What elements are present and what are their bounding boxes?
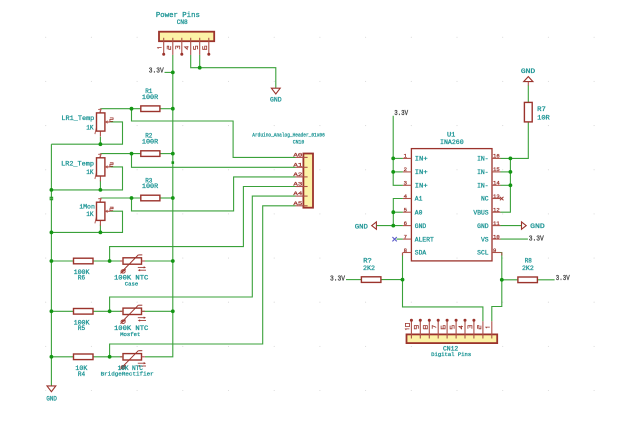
svg-text:iMon: iMon: [79, 204, 95, 211]
svg-text:2K2: 2K2: [522, 265, 534, 272]
svg-text:R5: R5: [78, 325, 85, 332]
svg-text:A1: A1: [415, 196, 423, 203]
svg-text:1K: 1K: [86, 211, 93, 218]
svg-text:GND: GND: [477, 223, 489, 230]
svg-text:1K: 1K: [86, 169, 93, 176]
svg-text:6: 6: [404, 220, 407, 227]
svg-text:9: 9: [493, 247, 496, 254]
svg-text:Case: Case: [125, 281, 138, 288]
svg-text:U1: U1: [447, 132, 456, 139]
svg-text:IN-: IN-: [477, 169, 489, 176]
svg-text:R8: R8: [525, 257, 532, 264]
svg-text:SDA: SDA: [415, 250, 427, 257]
svg-text:10R: 10R: [537, 114, 550, 121]
svg-text:12: 12: [493, 207, 500, 214]
svg-text:IN-: IN-: [477, 156, 489, 163]
svg-text:CN10: CN10: [293, 139, 305, 145]
svg-text:7: 7: [404, 233, 407, 240]
svg-text:GND: GND: [355, 223, 368, 230]
svg-text:GND: GND: [415, 223, 427, 230]
svg-text:3.3V: 3.3V: [556, 275, 571, 283]
svg-text:3.3V: 3.3V: [394, 110, 409, 118]
svg-text:2K2: 2K2: [363, 265, 375, 272]
svg-text:8: 8: [404, 247, 407, 254]
svg-text:Arduino_Analog_Header_01x06: Arduino_Analog_Header_01x06: [252, 133, 324, 139]
svg-text:R?: R?: [363, 258, 372, 265]
svg-text:GND: GND: [521, 68, 535, 75]
svg-text:3.3V: 3.3V: [149, 68, 165, 76]
svg-text:NC: NC: [481, 196, 489, 203]
svg-text:GND: GND: [530, 223, 545, 230]
svg-text:1K: 1K: [86, 125, 93, 132]
svg-text:A3: A3: [293, 181, 302, 188]
svg-text:A5: A5: [293, 200, 302, 207]
svg-text:VS: VS: [481, 236, 489, 243]
svg-text:100R: 100R: [142, 139, 158, 146]
svg-text:IN+: IN+: [415, 156, 428, 163]
svg-text:3.3V: 3.3V: [330, 276, 346, 284]
svg-text:A1: A1: [293, 161, 303, 168]
svg-text:10: 10: [493, 233, 500, 240]
svg-text:11: 11: [493, 220, 500, 227]
svg-text:IN-: IN-: [477, 183, 489, 190]
svg-text:ALERT: ALERT: [415, 236, 434, 243]
svg-text:R4: R4: [78, 371, 85, 378]
svg-text:100R: 100R: [142, 94, 158, 101]
svg-text:GND: GND: [270, 96, 282, 103]
svg-text:3.3V: 3.3V: [529, 235, 545, 243]
svg-text:A0: A0: [415, 209, 423, 216]
svg-text:5: 5: [404, 207, 407, 214]
svg-text:Mosfet: Mosfet: [120, 331, 140, 338]
svg-text:A4: A4: [293, 190, 303, 197]
svg-text:BridgeRectifier: BridgeRectifier: [101, 370, 154, 377]
svg-text:14: 14: [493, 180, 500, 187]
svg-text:IN+: IN+: [415, 169, 428, 176]
svg-text:2: 2: [404, 166, 407, 173]
svg-text:LR1_Temp: LR1_Temp: [61, 115, 94, 122]
svg-text:VBUS: VBUS: [473, 209, 488, 216]
svg-text:Digital Pins: Digital Pins: [431, 352, 471, 358]
svg-text:100R: 100R: [142, 183, 158, 190]
svg-text:R7: R7: [537, 106, 546, 113]
svg-text:CN8: CN8: [177, 19, 188, 26]
svg-text:3: 3: [404, 180, 407, 187]
svg-text:IN+: IN+: [415, 183, 428, 190]
svg-text:A2: A2: [293, 171, 302, 178]
svg-text:SCL: SCL: [477, 250, 489, 257]
svg-text:INA260: INA260: [440, 139, 464, 146]
svg-text:R6: R6: [78, 275, 85, 282]
svg-text:15: 15: [493, 166, 500, 173]
svg-text:GND: GND: [46, 395, 57, 402]
svg-text:13: 13: [493, 193, 500, 200]
svg-text:16: 16: [493, 153, 500, 160]
svg-text:A0: A0: [293, 152, 303, 159]
svg-text:LR2_Temp: LR2_Temp: [61, 161, 94, 168]
